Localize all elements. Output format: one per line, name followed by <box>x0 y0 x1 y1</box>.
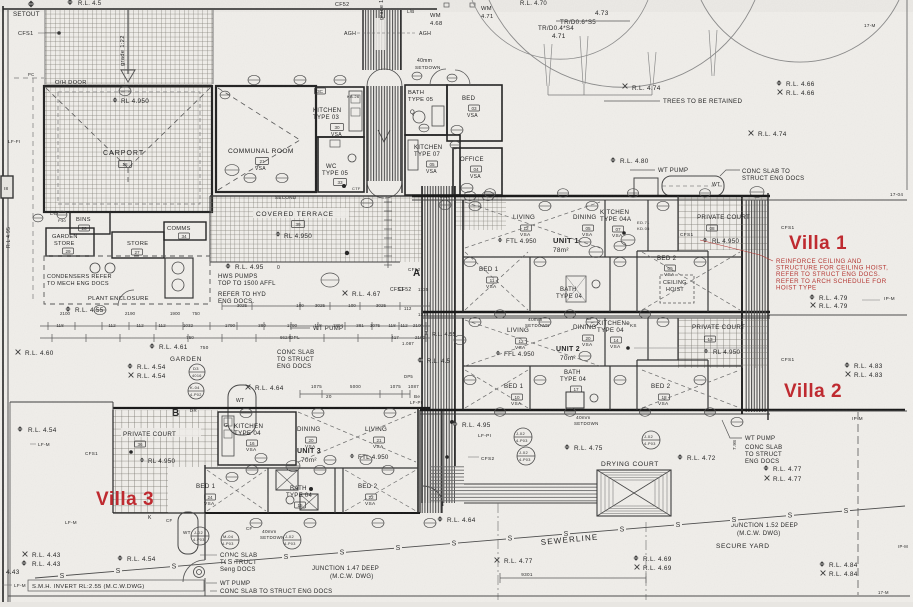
villa2 bottom wall (long) <box>420 409 905 411</box>
private court east hatch wall band <box>745 200 767 412</box>
villa2 unit label <box>496 351 501 356</box>
bed 03 room <box>447 85 502 141</box>
villa1 wall symbol rows <box>485 189 496 198</box>
garden store <box>46 228 94 256</box>
grade 1:14 arrow <box>375 18 385 50</box>
villa3 bath fixtures <box>276 470 298 490</box>
circled drain labels below villa2 <box>514 428 532 446</box>
bottom dimension line <box>500 577 646 579</box>
villa1 RL 4.79 <box>809 294 815 300</box>
kitchen type 07 room <box>405 135 460 195</box>
communal room dashed diagonals <box>218 88 300 140</box>
dim line row1 <box>222 305 430 307</box>
sewer line <box>35 506 905 578</box>
villa1 west wall <box>462 200 464 312</box>
wc type 05 room <box>318 137 364 192</box>
plant enclosure boundary <box>44 256 210 304</box>
bins room <box>70 212 110 234</box>
symbols above communal <box>248 75 260 84</box>
villa2 bath fixtures <box>566 392 584 408</box>
carport dashed V diagonals <box>46 88 128 168</box>
border frame left <box>2 6 4 602</box>
bottom-left wall segments <box>10 401 113 403</box>
villa2 mid RLs <box>452 421 458 427</box>
ramp band A double door arcs mid <box>367 69 402 86</box>
villa1 dashed cross bed1 <box>465 252 528 310</box>
door arcs top of rooms <box>430 69 446 85</box>
grade 1:22 arrow <box>127 10 129 74</box>
ramp grade 1:14 upper band <box>363 10 401 70</box>
trees to be retained <box>623 84 628 89</box>
tree canopy arc 2 <box>701 0 899 62</box>
villa3 side band <box>420 410 442 513</box>
villa3 symbols <box>240 408 252 417</box>
carport RL 4.950 <box>112 97 117 102</box>
dash-dot verticals bottom <box>497 503 499 600</box>
villa1 top wall <box>412 195 770 197</box>
wc fixtures <box>348 154 356 162</box>
tree trunk spikes <box>544 44 552 86</box>
villa2 internal walls <box>463 365 742 367</box>
border frame top <box>3 8 437 10</box>
tree horizontal leader under trees <box>547 86 549 95</box>
carport room <box>44 86 212 212</box>
ramp lower band <box>422 186 455 503</box>
border frame right <box>906 0 908 190</box>
rl 4.64 bottom left <box>437 516 443 522</box>
boundary dashed vertical <box>857 412 859 595</box>
villa2 symbols <box>469 317 481 326</box>
villa2 dashed crosses <box>465 320 600 366</box>
left rl 4.54 mid <box>17 426 23 432</box>
wt tank left <box>228 385 256 435</box>
villa2 east walls <box>741 316 743 414</box>
COVERED TERRACE label <box>253 208 349 218</box>
CFS1 court dot <box>622 231 626 235</box>
hatch band left of drying court <box>464 484 597 503</box>
setback dashed lines <box>32 78 34 300</box>
ramp band A double door arcs bottom <box>367 181 402 198</box>
plant fixtures <box>90 263 100 273</box>
office room <box>453 148 502 195</box>
villa3 private court grid <box>113 410 218 467</box>
villa1 unit label <box>498 238 503 243</box>
door arc plant <box>118 290 134 306</box>
villa1 east walls <box>741 196 743 316</box>
driveway grid hatch (grade 1:22) <box>45 10 213 84</box>
drying court square <box>597 470 671 516</box>
right horizontal divider lines <box>768 199 907 201</box>
villa3 top wall <box>113 407 430 409</box>
kitchen type 03 room <box>316 87 364 137</box>
villa2 west wall <box>462 318 464 410</box>
villa1 symbols row <box>469 201 481 210</box>
villa1 private court grid <box>678 197 767 250</box>
villa2 wall symbol rows <box>495 408 506 417</box>
villa2 private court grid <box>678 318 767 368</box>
garden labels <box>16 350 21 355</box>
kitchen 03 fixtures <box>349 91 362 131</box>
villa1 dashed cross living <box>465 202 600 248</box>
left mid rl55 <box>65 306 71 312</box>
villa1 internal walls <box>463 256 742 258</box>
ramp band B bottom door <box>423 486 443 506</box>
store <box>112 232 164 258</box>
covered terrace grid <box>210 196 422 262</box>
tree canopy inner arc <box>472 0 648 59</box>
tree canopy arc 1 <box>489 0 755 87</box>
right side RLs bottom <box>763 465 769 471</box>
villa3 below symbols <box>250 518 262 527</box>
villa3 beds/bath <box>205 467 418 469</box>
small dark box left edge <box>1 176 13 198</box>
sewer S marks <box>58 570 66 579</box>
bottom left RLs <box>23 552 28 557</box>
villa2 RL 4.83 <box>844 362 850 368</box>
villa1 bath fixtures <box>566 276 586 302</box>
bottom right border line <box>8 595 910 597</box>
villa3 outer walls <box>204 465 206 513</box>
wt tank villa3 <box>178 512 198 554</box>
dim row right (5000) <box>300 393 410 395</box>
communal room <box>216 86 316 192</box>
top right RL labels <box>776 80 782 86</box>
corner hatch block <box>430 466 464 503</box>
villa3 kitchen <box>218 412 296 465</box>
wt pump bottom <box>194 567 205 578</box>
carport left dashed boundary <box>58 92 200 204</box>
villa1 dashed cross bed2 <box>642 252 740 310</box>
left column symbols <box>33 214 43 222</box>
bath type 05 room <box>405 85 447 135</box>
villa2 top wall <box>423 317 770 319</box>
comms <box>164 222 206 240</box>
door arc bottom left <box>183 560 205 582</box>
PRIVATE COURT label villa3 <box>121 428 201 437</box>
villa1 bottom wall <box>423 311 770 313</box>
ceiling hoist dashed box <box>660 275 694 303</box>
terrace vertical dim chain <box>387 198 389 268</box>
terrace RL 4.950 <box>275 231 280 236</box>
villa3 dashed crosses <box>207 470 266 511</box>
